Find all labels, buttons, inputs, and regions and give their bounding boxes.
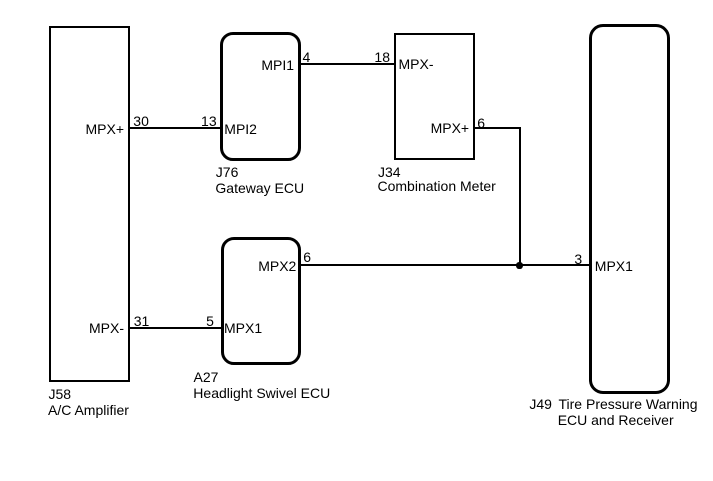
wire J58 MPX- pin31 to A27 MPX1 pin5	[130, 327, 221, 329]
wire J58 MPX+ pin30 to J76 MPI2 pin13	[130, 127, 221, 129]
connector J76 Gateway ECU	[220, 32, 301, 161]
label J49	[529, 396, 552, 412]
connector J49 Tire Pressure Warning ECU and Receiver	[589, 24, 671, 394]
wire J76 MPI1 pin4 to J34 MPX- pin18	[299, 63, 395, 65]
pin number 5	[206, 313, 214, 329]
pin number 31	[134, 313, 150, 329]
pin number 6 of J34	[477, 115, 485, 131]
pin number 30	[133, 113, 149, 129]
pin MPX- of J58	[89, 320, 124, 336]
connector J58 A/C Amplifier	[49, 26, 130, 382]
pin MPI2 of J76	[224, 121, 257, 137]
pin number 4	[303, 49, 311, 65]
label Combination Meter	[378, 178, 496, 194]
label J58	[49, 386, 72, 402]
label A27	[194, 369, 219, 385]
label Tire Pressure Warning	[559, 396, 698, 412]
label ECU and Receiver	[558, 412, 674, 428]
connector A27 Headlight Swivel ECU	[221, 237, 302, 365]
pin number 3	[574, 251, 582, 267]
pin number 6 of A27	[303, 249, 311, 265]
connector J34 Combination Meter	[394, 33, 475, 161]
wire A27 MPX2 pin6 to J49 MPX1 pin3	[301, 264, 589, 266]
pin number 13	[201, 113, 217, 129]
label Headlight Swivel ECU	[193, 385, 330, 401]
wire J34 MPX+ vertical drop to junction	[519, 127, 521, 266]
label J76	[216, 164, 239, 180]
pin MPX1 of A27	[224, 320, 262, 336]
pin MPX1 of J49	[595, 258, 633, 274]
pin MPX2 of A27	[258, 258, 296, 274]
wire J34 MPX+ pin6 horizontal	[474, 127, 521, 129]
junction dot	[516, 262, 522, 268]
pin MPX+ of J34	[431, 120, 470, 136]
pin MPX- of J34	[399, 56, 434, 72]
pin MPX+ of J58	[85, 121, 124, 137]
label Gateway ECU	[215, 180, 304, 196]
pin number 18	[374, 49, 390, 65]
label A/C Amplifier	[48, 402, 129, 418]
pin MPI1 of J76	[261, 57, 294, 73]
label J34	[378, 164, 401, 180]
